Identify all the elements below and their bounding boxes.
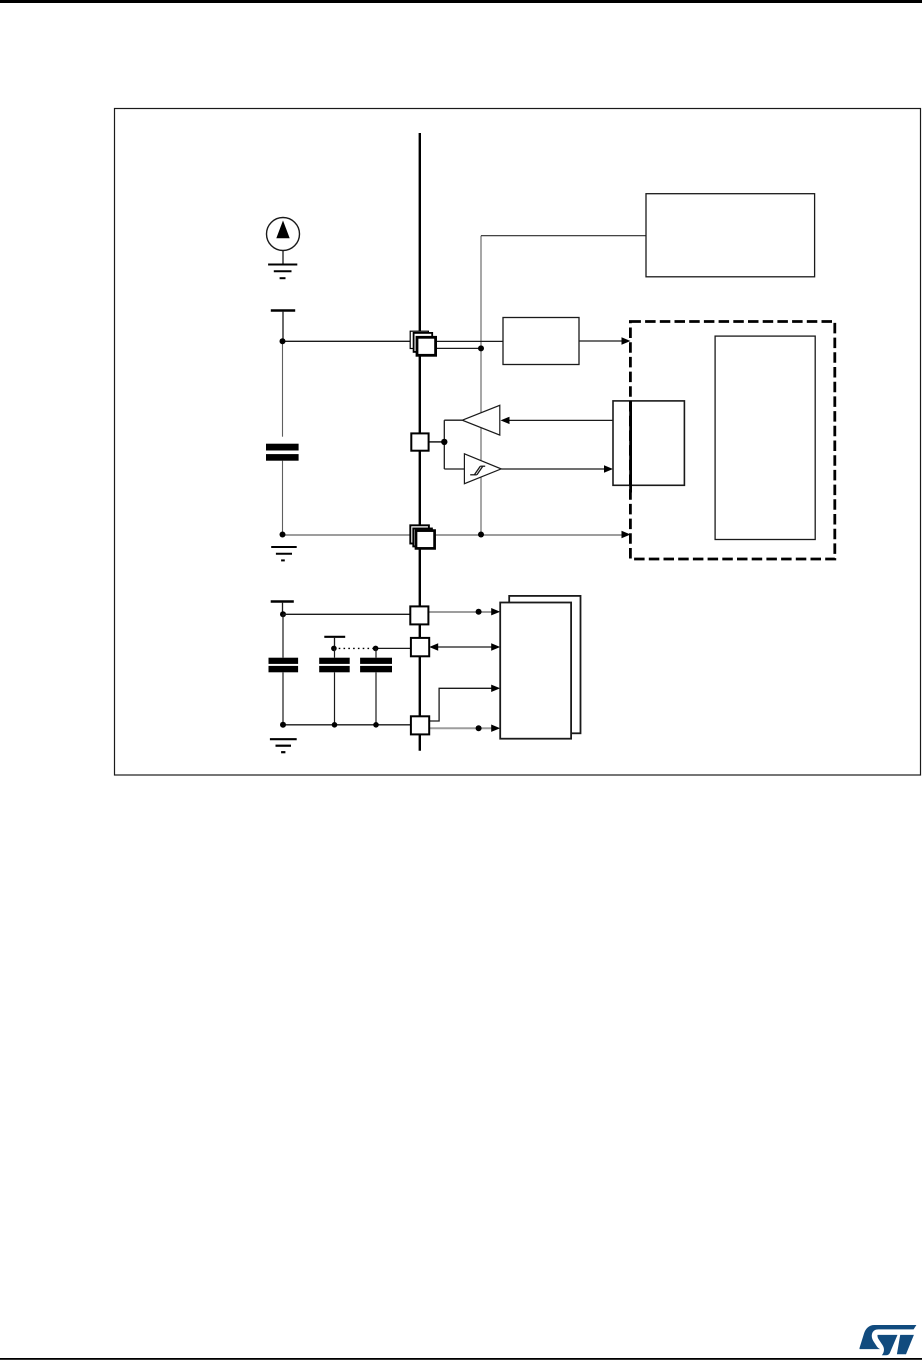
wire to top-right box: [481, 235, 646, 237]
wire schmitt output to logic box: [501, 468, 606, 470]
wire node vertical (buffer/schmitt tie): [443, 420, 445, 469]
capacitor C3: [319, 658, 350, 673]
top-right box (regulator): [646, 194, 815, 277]
supply stem to node: [282, 602, 284, 614]
arrowhead into block (pin2): [491, 643, 500, 650]
pin3 square: [411, 716, 429, 734]
capacitor C4: [360, 658, 392, 673]
arrowhead into logic box: [604, 465, 613, 472]
arrowhead into dashed block (VSS): [622, 531, 631, 538]
pin2 square: [411, 638, 429, 656]
arrowhead into block (up-and-over): [491, 685, 500, 692]
bottom page rule: [0, 1358, 922, 1360]
junction dot C3 bottom: [332, 722, 338, 728]
junction dot on gray VSS net: [478, 532, 484, 538]
IC boundary bus (thick vertical line): [419, 133, 421, 751]
junction dot VDD node: [280, 338, 286, 344]
POR box: [503, 318, 579, 365]
I/O logic box: [613, 401, 684, 485]
ground (under current source): [268, 265, 297, 279]
arrowhead into block (pin1): [491, 608, 500, 615]
current source (circle): [267, 218, 300, 251]
wire pin3 to block (gray): [429, 727, 493, 729]
wire net from ext. regulator box down to pads (vertical, x=481): [480, 236, 482, 535]
I/O pin square: [411, 433, 428, 450]
wire pin3 up-and-over to block: [429, 688, 494, 721]
junction dot VSS node: [280, 532, 286, 538]
junction dot at pad VDD lower stub: [478, 345, 484, 351]
arrowhead into buffer: [501, 417, 510, 424]
tall inner box (core): [715, 336, 815, 539]
ground (under VSS node): [271, 547, 297, 560]
wire node to schmitt input: [444, 468, 464, 470]
wire pad VSS to dashed block (gray): [435, 534, 623, 536]
ground (bottom left): [270, 739, 297, 752]
VDD supply stem: [282, 311, 284, 341]
capacitor C2 stem bottom: [282, 672, 284, 725]
junction dot C4 bottom: [373, 722, 379, 728]
decoupling capacitor C1 (top): [266, 444, 299, 461]
dashed block (core domain): [630, 322, 834, 560]
junction dot supply node: [280, 611, 286, 617]
capacitor C4 stem bottom: [375, 672, 377, 725]
pin1 square: [410, 606, 428, 624]
capacitor C2 (bottom left): [269, 658, 299, 673]
junction dot rail left: [280, 722, 286, 728]
arrowhead into block (pin3): [491, 725, 500, 732]
ground rail (bottom): [283, 724, 411, 726]
dotted ellipsis wire between cap nodes: [334, 647, 376, 649]
output buffer (left-pointing triangle): [462, 405, 500, 435]
supply T-bar (bottom left): [271, 600, 294, 602]
capacitor C4 stem top: [375, 648, 377, 657]
wire cap to VSS rail (left column vertical lower): [282, 461, 284, 535]
junction dot I/O node: [441, 439, 447, 445]
junction dot C3 top: [331, 646, 337, 652]
figure frame: [115, 109, 921, 776]
wire pin1 to block (gray): [428, 611, 493, 613]
hysteresis glyph: [470, 466, 485, 475]
arrowhead into dashed block (POR): [622, 337, 631, 344]
pad VSS (stacked pads): [410, 525, 434, 548]
top page rule: [0, 0, 922, 3]
junction dot C4 top: [373, 646, 379, 652]
capacitor C3 stem bottom: [334, 672, 336, 725]
capacitor C2 stem top: [282, 614, 284, 657]
wire logic box to buffer input: [507, 419, 613, 421]
junction dot on pin3 gray wire: [476, 725, 482, 731]
wire supply node to pin1: [283, 613, 410, 615]
VDD supply T-bar: [271, 309, 295, 311]
I/O logic box inner divider (solid segment of domain boundary): [629, 401, 632, 493]
wire buffer output to node: [444, 419, 462, 421]
wire VDD to pad VDD (horizontal): [283, 340, 411, 342]
wire pad VDD to POR box: [436, 340, 503, 342]
wire POR box to dashed block: [579, 340, 623, 342]
schmitt trigger input (right-pointing triangle): [464, 454, 501, 484]
bidirectional wire pin2 to block: [434, 646, 494, 648]
ST logo: [860, 1325, 917, 1355]
wire VSS gray net (horizontal): [283, 534, 410, 536]
current source arrow (filled triangle): [276, 221, 289, 239]
supply T-bar above C3: [324, 636, 345, 638]
current source stem: [282, 251, 284, 264]
wire VDD node to pad (left column vertical upper): [282, 341, 284, 436]
arrowhead toward pin2: [429, 643, 438, 650]
capacitor C3 stem top: [334, 648, 336, 657]
wire cap2 node to pin2: [376, 647, 411, 649]
junction dot on pin1 gray wire: [476, 609, 482, 615]
analog block back box: [509, 596, 580, 733]
pad VDD (stacked pads): [410, 331, 435, 355]
wire pin to node dot (middle I/O pin): [429, 441, 445, 443]
C3 supply stem: [334, 637, 336, 648]
analog block front box: [500, 603, 571, 739]
wire pad VDD lower stub to node: [436, 347, 481, 349]
